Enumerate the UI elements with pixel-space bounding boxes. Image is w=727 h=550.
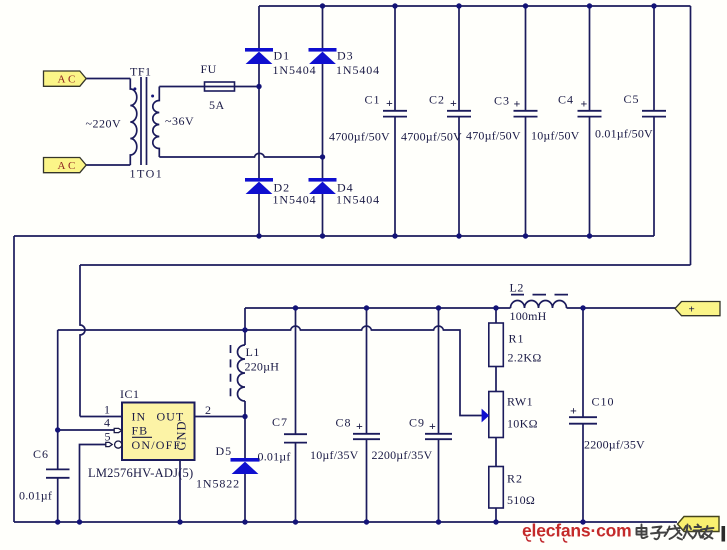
svg-text:5A: 5A: [209, 98, 225, 112]
svg-text:1: 1: [104, 403, 110, 417]
svg-text:4: 4: [104, 416, 110, 430]
potentiometer RW1 10KΩ: [482, 392, 538, 438]
transformer TF1 primary winding: [130, 79, 137, 166]
watermark chinese characters 电子发烧友: [637, 525, 714, 540]
svg-text:0.01µf: 0.01µf: [258, 450, 291, 464]
svg-text:2200µf/35V: 2200µf/35V: [584, 438, 645, 452]
node junction dot: [493, 519, 498, 524]
svg-text:TF1: TF1: [130, 65, 152, 79]
svg-text:~220V: ~220V: [86, 117, 122, 131]
svg-text:RW1: RW1: [507, 395, 533, 409]
svg-text:+: +: [429, 419, 436, 433]
wire left-edge ground vertical x=14: [13, 236, 15, 522]
node junction dot: [493, 305, 498, 310]
svg-text:IN: IN: [132, 410, 147, 424]
svg-text:1N5404: 1N5404: [273, 63, 317, 77]
node VOUT+ output terminal: [675, 302, 720, 316]
svg-text:C2: C2: [429, 93, 445, 107]
resistor R1 2.2KΩ: [489, 323, 542, 367]
svg-text:5: 5: [105, 430, 111, 444]
op-amp U1 / regulator IC1 LM2576HV-ADJ body: [88, 387, 195, 480]
svg-text:220µH: 220µH: [245, 360, 280, 374]
node junction dot: [587, 233, 592, 238]
svg-text:1N5822: 1N5822: [196, 477, 240, 491]
watermark text cursor bar: [722, 526, 726, 542]
svg-text:0.01µf/50V: 0.01µf/50V: [595, 127, 653, 141]
node junction dot: [456, 233, 461, 238]
wire VIN vertical x=80 with hop over FB line, down to pin 1: [80, 265, 85, 417]
svg-text:C6: C6: [33, 447, 49, 461]
svg-text:+: +: [581, 96, 588, 110]
node junction dot: [523, 233, 528, 238]
svg-text:+: +: [386, 96, 393, 110]
svg-text:IC1: IC1: [120, 387, 140, 401]
capacitor C6 0.01µf: [19, 447, 70, 503]
node junction dot: [436, 305, 441, 310]
capacitor C10 2200µf/35V: [569, 395, 645, 452]
node junction dot: [293, 305, 298, 310]
diode D4 1N5404: [309, 178, 381, 207]
svg-text:C7: C7: [272, 415, 288, 429]
node junction dot: [364, 305, 369, 310]
node junction dot: [242, 414, 247, 419]
svg-text:C10: C10: [592, 395, 615, 409]
wire C9 branch: [438, 308, 440, 522]
svg-text:C1: C1: [365, 93, 381, 107]
capacitor C3 470µf/50V: [466, 94, 538, 143]
wire right-edge vertical from top rail down to VIN feed: [690, 6, 692, 265]
wire C10 branch: [582, 308, 584, 522]
svg-text:L1: L1: [246, 345, 260, 359]
svg-text:+: +: [514, 96, 521, 110]
svg-text:C5: C5: [624, 92, 640, 106]
capacitor C9 2200µf/35V: [372, 416, 453, 463]
svg-text:R1: R1: [509, 332, 525, 346]
svg-text:10µf/50V: 10µf/50V: [531, 129, 580, 143]
node junction dot: [77, 519, 82, 524]
svg-text:4700µf/50V: 4700µf/50V: [401, 130, 462, 144]
svg-text:D5: D5: [216, 444, 233, 458]
wire C2 branch: [458, 6, 460, 236]
capacitor C5 0.01µf/50V: [595, 92, 666, 141]
capacitor C7 0.01µf: [258, 415, 308, 464]
node junction dot: [580, 519, 585, 524]
wire D3/D4 bridge branch x=322.5: [322, 6, 324, 236]
svg-text:0.01µf: 0.01µf: [19, 489, 52, 503]
node junction dot: [242, 519, 247, 524]
svg-text:FB: FB: [132, 424, 149, 438]
svg-text:FU: FU: [201, 62, 217, 76]
svg-text:2: 2: [205, 403, 211, 417]
diode D1 1N5404: [245, 48, 317, 77]
wire C4 branch: [589, 6, 591, 236]
svg-text:+: +: [356, 419, 363, 433]
svg-text:470µf/50V: 470µf/50V: [466, 129, 521, 143]
svg-text:1N5404: 1N5404: [336, 193, 380, 207]
svg-text:C3: C3: [494, 94, 510, 108]
pin 4 FB input port symbol: [114, 428, 122, 432]
wire C3 branch: [525, 6, 527, 236]
capacitor C1 4700µf/50V: [329, 93, 407, 144]
capacitor C8 10µf/35V: [310, 416, 380, 463]
svg-text:1N5404: 1N5404: [336, 63, 380, 77]
svg-text:+: +: [450, 96, 457, 110]
wire output rail y=308 from L1 top to L2: [245, 307, 511, 309]
svg-text:D3: D3: [337, 49, 354, 63]
wire C1 branch: [394, 6, 396, 236]
node junction dot: [587, 3, 592, 8]
node junction dot: [651, 3, 656, 8]
transformer secondary phase dot: [151, 95, 154, 98]
node junction dot: [320, 154, 325, 159]
svg-text:100mH: 100mH: [510, 309, 547, 323]
svg-text:2.2KΩ: 2.2KΩ: [508, 351, 542, 365]
wire C8 branch: [366, 308, 368, 522]
fuse FU body: [205, 82, 235, 91]
node junction dot: [55, 519, 60, 524]
svg-text:2200µf/35V: 2200µf/35V: [372, 448, 433, 462]
node junction dot: [177, 519, 182, 524]
node junction dot: [256, 233, 261, 238]
node junction dot: [580, 305, 585, 310]
node A: fuse junction wire from secondary top through fuse: [159, 86, 259, 88]
node junction dot: [55, 427, 60, 432]
svg-text:C8: C8: [336, 416, 352, 430]
svg-text:D1: D1: [274, 49, 291, 63]
svg-text:10µf/35V: 10µf/35V: [310, 448, 359, 462]
diode D3 1N5404: [309, 48, 381, 77]
wire C7 branch: [295, 308, 297, 522]
transformer TF1 core lines: [141, 77, 147, 165]
wire pin 1 to IC: [80, 416, 122, 418]
svg-text:LM2576HV-ADJ(5): LM2576HV-ADJ(5): [88, 466, 193, 480]
node VOUT- output terminal (behind watermark): [678, 517, 720, 532]
node junction dot: [392, 233, 397, 238]
svg-text:GND: GND: [175, 420, 189, 450]
wire pin 4 FB to junction: [58, 429, 114, 431]
node junction dot: [320, 3, 325, 8]
node junction dot: [436, 519, 441, 524]
pin 5 ON/OFF port symbol with inversion bubble: [106, 442, 112, 446]
wire VIN feed line y=265 going left: [80, 264, 691, 266]
watermark elecfans.com logo: [522, 521, 631, 543]
svg-text:C4: C4: [558, 93, 574, 107]
AC input terminal 2: [44, 158, 87, 173]
capacitor C4 10µf/50V: [531, 93, 602, 143]
wire L2 output to plus terminal: [567, 307, 678, 309]
transformer TF1 secondary winding: [153, 87, 159, 158]
svg-text:AC: AC: [58, 160, 78, 172]
inductor L1 220µH: [231, 345, 280, 401]
wire secondary bottom with hop over D1/D2 branch: [159, 153, 322, 157]
wire C6/FB branch x=57.7: [57, 330, 59, 522]
svg-text:L2: L2: [510, 281, 524, 295]
wire bottom ground rail y=522: [14, 521, 677, 523]
svg-text:AC: AC: [58, 74, 78, 86]
svg-text:510Ω: 510Ω: [507, 493, 535, 507]
svg-text:~36V: ~36V: [165, 114, 194, 128]
svg-text:R2: R2: [507, 472, 523, 486]
svg-text:C9: C9: [409, 416, 425, 430]
node junction dot: [364, 519, 369, 524]
node junction dot: [456, 3, 461, 8]
node junction dot: [320, 233, 325, 238]
AC input terminal 1: [44, 71, 87, 86]
svg-text:10KΩ: 10KΩ: [507, 417, 538, 431]
wire top positive rail: [259, 5, 691, 7]
wire AC2 to transformer primary bottom: [86, 164, 130, 166]
node junction dot: [256, 84, 261, 89]
capacitor C2 4700µf/50V: [401, 93, 471, 144]
diode D5 1N5822: [196, 444, 260, 491]
inductor L2 100mH: [510, 281, 569, 324]
wire IC GND pin to ground rail: [179, 460, 181, 522]
wire L1 branch x=245: rail to coil, coil to pin2 node, node to D5, D5 to ground: [244, 308, 246, 522]
wire divider branch R1/RW1/R2 x=496: [495, 308, 497, 522]
resistor R2 510Ω: [489, 467, 535, 509]
node junction dot: [293, 519, 298, 524]
wire pin 2 OUT to L1/D5 node: [195, 416, 246, 418]
node junction dot: [523, 3, 528, 8]
svg-text:1TO1: 1TO1: [130, 167, 164, 181]
wire D1/D2 bridge branch x=259: [258, 6, 260, 236]
wire ground rail of rectifier section y=236: [14, 235, 654, 237]
wire AC1 to transformer primary: [86, 78, 130, 80]
svg-text:+: +: [570, 404, 577, 418]
svg-text:elecfans·com: elecfans·com: [522, 521, 631, 541]
node junction dot: [392, 3, 397, 8]
svg-text:+: +: [689, 304, 695, 316]
wire FB sense line y=330 with hops over C7,C8,C9 branches then down to wiper: [58, 326, 482, 416]
wire pin 5 ON/OFF down to ground: [80, 445, 106, 523]
node junction dot: [242, 327, 247, 332]
transformer primary phase dot: [133, 87, 136, 90]
wire C5 branch: [653, 6, 655, 236]
diode D2 1N5404: [245, 178, 317, 207]
svg-text:4700µf/50V: 4700µf/50V: [329, 130, 390, 144]
svg-text:1N5404: 1N5404: [273, 193, 317, 207]
